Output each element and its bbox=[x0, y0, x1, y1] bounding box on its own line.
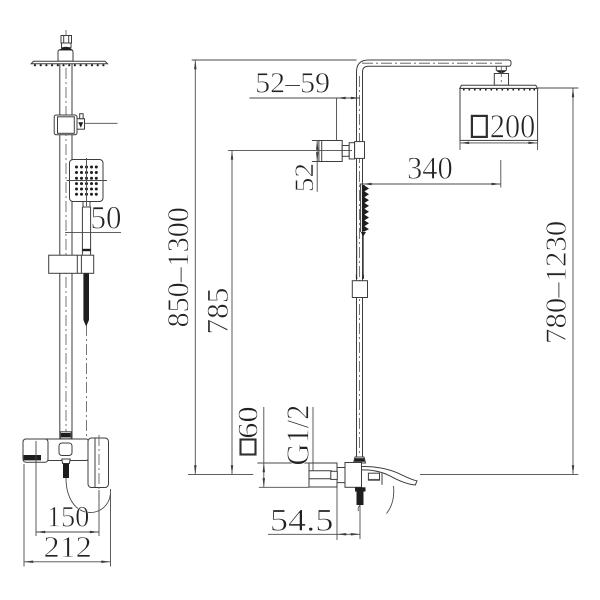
spout blade bbox=[362, 467, 418, 485]
dim 780-1230 line with arrows bbox=[572, 88, 574, 474]
cartridge square bbox=[59, 443, 72, 456]
hand shower side view (dark with teeth) bbox=[361, 185, 369, 237]
dim 780-1230 bottom extension bbox=[420, 473, 578, 475]
threaded tail (schematic) bbox=[357, 492, 364, 506]
eccentric connector inside bbox=[309, 471, 332, 479]
riser pipe vertical (schematic) bbox=[357, 72, 363, 457]
threaded hose tail (dark) bbox=[63, 464, 69, 479]
dim 150 extension lines bbox=[36, 441, 99, 536]
riser pipe body bbox=[60, 64, 72, 439]
wall union box bbox=[309, 463, 337, 487]
dim 785 line with arrows bbox=[231, 150, 233, 474]
diverter knob bbox=[77, 114, 118, 130]
RIGHT FIGURE bbox=[168, 60, 578, 540]
spout mouth (black) bbox=[24, 455, 41, 460]
pipe axis extension below bbox=[359, 505, 361, 539]
square symbol for 60 bbox=[241, 440, 256, 455]
escutcheon cone bbox=[58, 50, 73, 62]
valve body bbox=[345, 463, 362, 488]
slider bracket bbox=[49, 255, 94, 273]
hose outlet hex bbox=[62, 459, 70, 464]
dim 850-1300 top extension bbox=[192, 59, 357, 61]
arm end connector bbox=[494, 66, 508, 96]
hand shower face bbox=[70, 160, 104, 202]
overhead head body bbox=[460, 88, 538, 140]
thread label G1/2 bbox=[287, 406, 309, 464]
overhead shower plate (edge view) bbox=[31, 61, 107, 63]
dim 212 extension lines bbox=[24, 464, 111, 567]
dimension text 150 bbox=[49, 507, 88, 527]
dim 60 extension lines bbox=[257, 463, 309, 487]
spray dots 5x6 bbox=[75, 166, 98, 196]
dimension text 212 bbox=[45, 537, 90, 557]
dim 780-1230 top extension bbox=[537, 87, 578, 89]
hand shower handle (schematic) bbox=[357, 236, 364, 279]
LEFT FIGURE bbox=[23, 30, 121, 567]
diverter housing bbox=[54, 115, 77, 135]
dim 212 line with arrows bbox=[24, 561, 111, 563]
hand shower handle bbox=[82, 202, 90, 256]
arm centerline bbox=[362, 62, 502, 64]
mixer center extension (left) bbox=[188, 473, 253, 475]
top ceiling connector bbox=[61, 36, 72, 48]
dim 200 ext stubs bbox=[460, 140, 538, 150]
dim 54.5 left extension bbox=[336, 488, 338, 541]
dim 52-59 line with arrows bbox=[249, 97, 360, 99]
riser pipe centerline bbox=[359, 76, 361, 456]
mixer inlet flare bbox=[60, 432, 71, 439]
plate serrations bbox=[463, 89, 535, 91]
hose hidden centerline bbox=[86, 325, 88, 458]
lever handle bbox=[387, 486, 394, 514]
mixer body bbox=[23, 439, 89, 461]
dim 54.5 line with arrows bbox=[268, 533, 360, 535]
diverter axis line bbox=[228, 149, 352, 151]
mixer inlet flare (schematic) bbox=[354, 457, 366, 463]
dim 340 right extension bbox=[500, 160, 502, 188]
centerline of riser pipe bbox=[65, 30, 67, 443]
dim text 340 bbox=[409, 157, 452, 179]
dim text 850-1300 bbox=[168, 208, 189, 326]
slider bracket (schematic) bbox=[352, 281, 367, 298]
overhead head top plate bbox=[460, 85, 538, 88]
ball joint (dark) bbox=[59, 47, 73, 51]
dim text 785 bbox=[207, 289, 228, 333]
spout-body junction line bbox=[381, 473, 383, 485]
dim 850-1300 line with arrows bbox=[194, 60, 196, 474]
dim 150 line with arrows bbox=[36, 531, 99, 533]
spout window detail bbox=[368, 473, 379, 480]
union nut bbox=[331, 471, 338, 479]
dim 52-59 extension line (wall plane) bbox=[336, 98, 338, 141]
locknut below valve bbox=[355, 487, 366, 491]
square symbol for 200 bbox=[472, 116, 487, 137]
dim text 54.5 bbox=[272, 510, 332, 531]
dim text 52 bbox=[295, 165, 313, 191]
mixer handle (right) bbox=[88, 435, 109, 500]
hand shower crosshair centerlines bbox=[67, 158, 108, 206]
dim 200 line with arrows bbox=[460, 142, 538, 144]
mixer left spout section bbox=[23, 439, 48, 462]
dim 52-59 text bbox=[257, 73, 329, 93]
diverter knob (schematic) bbox=[312, 141, 365, 162]
hose loop curve bbox=[66, 478, 110, 513]
top bend and horizontal arm bbox=[357, 60, 512, 72]
tail hook bbox=[358, 505, 360, 511]
dim text 60 bbox=[239, 408, 258, 438]
nozzle dots under plate bbox=[34, 64, 105, 66]
dimension 50 leader bbox=[65, 231, 121, 233]
hose upper section (dark) bbox=[83, 274, 89, 327]
dim 340 line with arrows bbox=[360, 183, 501, 185]
G1/2 axis line bbox=[312, 407, 314, 471]
dimension text 200 bbox=[491, 115, 534, 138]
dim 60 line with arrows bbox=[263, 407, 265, 487]
dimension text 50 bbox=[92, 207, 120, 229]
dim text 780-1230 bbox=[546, 222, 566, 342]
neck between union and body bbox=[337, 468, 345, 483]
dim 52 line with arrows bbox=[316, 141, 318, 192]
